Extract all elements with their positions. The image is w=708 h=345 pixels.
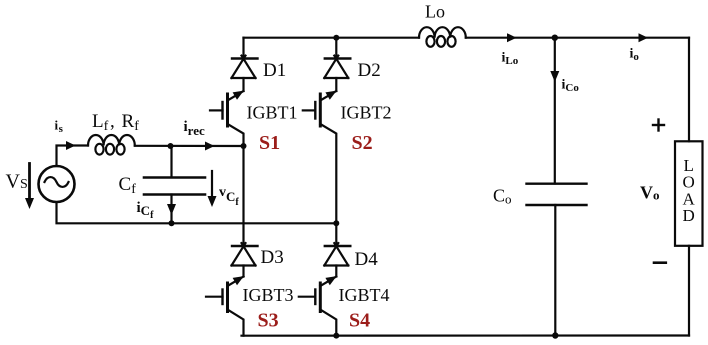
+ polarity label bbox=[653, 120, 664, 131]
Vs polarity arrow bbox=[25, 164, 34, 210]
IGBT3 label bbox=[243, 285, 294, 305]
wire bottom rail bbox=[242, 334, 690, 336]
S1 label bbox=[259, 132, 280, 154]
node S1 junction bbox=[241, 143, 247, 149]
svg-text:D4: D4 bbox=[355, 249, 379, 270]
svg-text:D3: D3 bbox=[261, 247, 284, 268]
node is arrow bbox=[66, 141, 76, 150]
inductor Lo bbox=[419, 27, 466, 47]
LOAD letters bbox=[683, 156, 696, 225]
wire left leg top bbox=[242, 38, 244, 59]
D4 label bbox=[355, 249, 379, 270]
wire right edge down to load bbox=[688, 38, 690, 142]
wire right leg top bbox=[335, 38, 337, 59]
IGBT U3 bbox=[206, 276, 244, 336]
D3 label bbox=[261, 247, 284, 268]
wire load bottom bbox=[688, 246, 690, 336]
node junction filter/Cf bbox=[168, 143, 174, 149]
svg-text:D2: D2 bbox=[358, 60, 381, 81]
IGBT U2 bbox=[303, 91, 337, 224]
vCf label bbox=[219, 185, 239, 208]
node bottom rail to right leg junction bbox=[333, 220, 339, 226]
IGBT U4 bbox=[299, 276, 337, 336]
iLo arrow bbox=[507, 33, 517, 42]
node output junction top bbox=[552, 35, 558, 41]
load resistor box bbox=[675, 141, 703, 246]
node top rail right leg junction bbox=[333, 35, 339, 41]
S2 label bbox=[352, 132, 373, 154]
svg-text:D1: D1 bbox=[263, 60, 286, 81]
wire Co bottom to rail bbox=[554, 205, 556, 336]
Lo label bbox=[425, 2, 445, 22]
wire junction down to Cf bbox=[170, 146, 172, 177]
irec arrow bbox=[205, 142, 215, 151]
IGBT2 label bbox=[341, 103, 392, 123]
IGBT U1 bbox=[210, 91, 244, 146]
io label bbox=[630, 47, 640, 64]
node Co bottom junction bbox=[552, 332, 558, 338]
svg-text:S4: S4 bbox=[349, 310, 370, 332]
voltage source Vs bbox=[39, 166, 75, 202]
minus polarity label bbox=[654, 261, 666, 264]
iCf label bbox=[137, 200, 155, 221]
wire right leg to D4 bbox=[335, 223, 337, 246]
iCo label bbox=[562, 78, 580, 95]
wire source top to filter bbox=[57, 146, 89, 167]
svg-text:S1: S1 bbox=[259, 132, 280, 154]
svg-text:S2: S2 bbox=[352, 132, 373, 154]
Cf label bbox=[119, 174, 137, 197]
IGBT1 label bbox=[247, 103, 298, 123]
vCf arrow bbox=[208, 171, 217, 207]
node Cf bottom junction bbox=[169, 220, 175, 226]
is label bbox=[55, 118, 64, 136]
svg-text:IGBT4: IGBT4 bbox=[339, 285, 390, 305]
wire left leg mid (crosses bottom rail) bbox=[242, 146, 244, 246]
D2 label bbox=[358, 60, 381, 81]
iLo label bbox=[502, 51, 519, 68]
capacitor Co bbox=[527, 184, 587, 205]
wire output node down to Co with iCo arrow bbox=[550, 38, 559, 184]
wire filter to bridge bbox=[135, 145, 244, 147]
S3 label bbox=[258, 310, 279, 332]
node bottom right leg junction bbox=[333, 333, 339, 339]
S4 label bbox=[349, 310, 370, 332]
diode D3 bbox=[232, 243, 258, 276]
Co label bbox=[493, 186, 512, 207]
svg-text:IGBT1: IGBT1 bbox=[247, 103, 298, 123]
Vo label bbox=[640, 183, 660, 203]
wire top rail of bridge bbox=[244, 37, 420, 39]
D1 label bbox=[263, 60, 286, 81]
irec label bbox=[184, 119, 205, 138]
wire Lo to output node bbox=[466, 37, 689, 39]
diode D4 bbox=[324, 243, 350, 276]
diode D1 bbox=[232, 56, 258, 91]
IGBT4 label bbox=[339, 285, 390, 305]
wire source bottom rail bbox=[57, 203, 337, 223]
Vs label bbox=[6, 171, 28, 193]
Lf Rf label bbox=[92, 111, 139, 134]
svg-text:IGBT3: IGBT3 bbox=[243, 285, 294, 305]
svg-text:D: D bbox=[683, 206, 695, 225]
io arrow bbox=[639, 33, 649, 42]
wire Cf to bottom rail with iCf arrow bbox=[167, 195, 176, 224]
capacitor Cf bbox=[144, 178, 205, 195]
svg-text:IGBT2: IGBT2 bbox=[341, 103, 392, 123]
diode D2 bbox=[324, 56, 350, 91]
inductor Lf Rf bbox=[88, 135, 135, 155]
svg-text:S3: S3 bbox=[258, 310, 279, 332]
svg-text:Lo: Lo bbox=[425, 2, 445, 22]
